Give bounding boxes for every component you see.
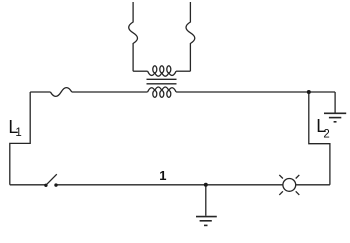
svg-text:2: 2 [323, 128, 329, 140]
svg-text:1: 1 [15, 127, 21, 139]
svg-text:1: 1 [159, 168, 166, 183]
